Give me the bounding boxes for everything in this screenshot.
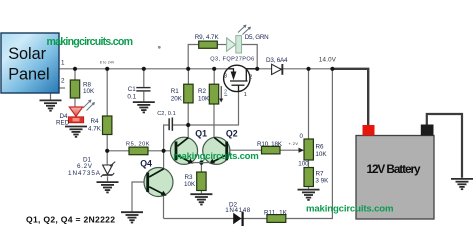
wires layer xyxy=(51,45,333,219)
battery terminal positive xyxy=(363,125,375,136)
wire R1 bottom to Q1 collector xyxy=(187,103,189,137)
svg-text:makingcircuits.com: makingcircuits.com xyxy=(173,151,258,162)
wire main rail 8-24V xyxy=(59,68,332,70)
mosfet Q3 xyxy=(224,65,256,98)
wire C1 to ground xyxy=(143,92,145,102)
node R8/rail xyxy=(73,67,77,71)
svg-text:R1: R1 xyxy=(171,88,180,95)
svg-text:makingcircuits.com: makingcircuits.com xyxy=(47,36,134,48)
wire D5 to rail xyxy=(242,45,258,69)
wire solar pin2 stub xyxy=(59,87,65,89)
svg-text:2: 2 xyxy=(249,74,252,80)
resistor R8 xyxy=(70,80,79,98)
node right vertical/rail xyxy=(330,67,334,71)
svg-text:10K: 10K xyxy=(83,88,95,95)
node R9/R1/rail xyxy=(186,67,190,71)
resistor R3 xyxy=(197,172,206,191)
resistor R9 xyxy=(199,41,218,48)
svg-text:R9, 4.7K: R9, 4.7K xyxy=(195,34,220,41)
wire R2 top xyxy=(213,69,215,84)
svg-text:R6: R6 xyxy=(316,144,325,151)
svg-text:1: 1 xyxy=(244,92,247,98)
svg-text:10K: 10K xyxy=(315,151,327,158)
transistor Q4 xyxy=(144,168,173,197)
svg-text:D3, 6A4: D3, 6A4 xyxy=(266,57,288,64)
wire rail to pot top xyxy=(308,69,310,139)
ground battery xyxy=(451,179,473,189)
svg-text:R5, 20K: R5, 20K xyxy=(126,141,150,147)
wire R4 top xyxy=(106,69,108,116)
svg-text:2: 2 xyxy=(61,78,65,85)
node R2/rail xyxy=(212,67,216,71)
wire R5 left xyxy=(107,150,129,152)
resistor R10 xyxy=(262,146,281,154)
wire R1 top xyxy=(187,69,189,84)
wire R9 to D5 xyxy=(217,44,226,46)
wire Q4 emitter down xyxy=(163,196,165,219)
node pot/rail xyxy=(306,67,310,71)
wire Q2 base to R10 xyxy=(228,149,261,151)
svg-text:20K: 20K xyxy=(171,95,183,102)
wire R9 branch left xyxy=(188,45,199,69)
wire R10 to pot wiper xyxy=(280,149,299,151)
wire R5 right to Q1 base xyxy=(148,150,175,152)
ground solar xyxy=(40,100,62,110)
capacitor C2 xyxy=(168,118,173,131)
node R4/rail xyxy=(105,67,109,71)
battery 12V xyxy=(356,125,434,220)
svg-text:3 9K: 3 9K xyxy=(315,178,329,185)
svg-text:R10, 18K: R10, 18K xyxy=(257,141,283,148)
wire solar ground stub xyxy=(50,93,52,100)
svg-text:Q1, Q2, Q4 = 2N2222: Q1, Q2, Q4 = 2N2222 xyxy=(26,214,115,224)
wire D1 to ground xyxy=(107,176,109,181)
wire battery minus to ground xyxy=(427,114,462,178)
svg-text:C1: C1 xyxy=(128,86,137,93)
LED D5 xyxy=(227,25,251,54)
wire R8 top xyxy=(74,69,76,80)
node emitters/R3 xyxy=(199,161,203,165)
wire Q4 base L xyxy=(132,182,146,211)
ground R7 xyxy=(298,190,320,200)
resistor R4 xyxy=(103,116,112,135)
svg-text:R11, 1K: R11, 1K xyxy=(264,209,288,216)
svg-text:+.2V: +.2V xyxy=(289,141,299,146)
wire R8 to D4 xyxy=(74,98,76,107)
wire thick 14V to battery plus xyxy=(332,69,368,125)
wire C2 left xyxy=(164,125,169,151)
wire emitters to R3 xyxy=(200,163,202,172)
svg-text:R3: R3 xyxy=(185,174,194,181)
svg-text:10K: 10K xyxy=(198,95,210,102)
wire bottom rail xyxy=(164,69,333,219)
ground D1 xyxy=(97,182,119,192)
svg-text:R4: R4 xyxy=(91,118,100,125)
wire R7 to ground xyxy=(308,187,310,189)
svg-text:Q3, FQP27PO6: Q3, FQP27PO6 xyxy=(210,57,254,63)
resistor R1 xyxy=(184,84,193,103)
svg-text:2: 2 xyxy=(224,90,227,96)
svg-text:10K: 10K xyxy=(184,181,196,188)
junction dots xyxy=(73,67,335,165)
capacitor C1 xyxy=(136,87,150,92)
stray mark xyxy=(158,46,161,49)
svg-text:RED: RED xyxy=(56,120,70,127)
svg-text:Solar: Solar xyxy=(8,45,46,63)
svg-text:Q2: Q2 xyxy=(226,129,238,139)
wire R2 bottom to Q2 collector xyxy=(213,104,215,137)
resistor R11 xyxy=(267,215,286,223)
svg-text:0.1: 0.1 xyxy=(127,94,136,101)
svg-text:1N4148: 1N4148 xyxy=(225,207,250,214)
resistor R2 xyxy=(209,84,218,104)
pot wiper arrow xyxy=(299,148,305,153)
solar panel box xyxy=(1,33,59,93)
ground D4 xyxy=(65,127,87,137)
wire pot to R7 xyxy=(308,160,310,168)
node C2/R1/Q1 collector xyxy=(186,123,190,127)
svg-text:8 to 24V: 8 to 24V xyxy=(100,61,115,65)
ground Q4 base xyxy=(121,212,143,222)
ground C1 xyxy=(133,102,155,112)
node R4/R5/D1 xyxy=(105,149,109,153)
svg-text:C2, 0.1: C2, 0.1 xyxy=(157,111,176,117)
node C1/rail xyxy=(142,67,146,71)
svg-text:12V Battery: 12V Battery xyxy=(367,162,421,176)
zener D1 xyxy=(101,162,115,177)
node R5/Q1 base/Q4 collector xyxy=(162,149,166,153)
pot R6 xyxy=(304,139,313,160)
node drain/D5/rail xyxy=(255,67,259,71)
svg-text:Q1: Q1 xyxy=(195,129,207,139)
ground R3 xyxy=(190,194,212,204)
LED D4 xyxy=(68,100,95,123)
svg-text:R2: R2 xyxy=(198,88,207,95)
transistor Q1 xyxy=(170,137,201,164)
diode D2 xyxy=(233,212,244,226)
svg-text:100: 100 xyxy=(298,160,309,167)
svg-text:6.2V: 6.2V xyxy=(77,163,93,170)
svg-text:Panel: Panel xyxy=(8,65,49,83)
svg-text:1: 1 xyxy=(61,60,65,67)
battery terminal negative xyxy=(421,125,434,136)
svg-text:Q4: Q4 xyxy=(140,158,152,168)
diode D3 xyxy=(272,64,284,75)
svg-text:4.7K: 4.7K xyxy=(88,126,102,133)
svg-text:3: 3 xyxy=(224,74,227,80)
svg-text:14.0V: 14.0V xyxy=(319,57,337,64)
wire C2 right to Q3 gate xyxy=(173,92,238,125)
transistor Q2 xyxy=(201,137,230,164)
svg-text:R7: R7 xyxy=(316,170,325,177)
resistor R5 xyxy=(129,147,148,155)
wire Q4 collector xyxy=(163,151,165,169)
wire R4 to D1 xyxy=(106,135,108,166)
svg-text:makingcircuits.com: makingcircuits.com xyxy=(306,204,394,215)
svg-text:D5, GRN: D5, GRN xyxy=(245,34,269,41)
svg-text:1N4735A: 1N4735A xyxy=(68,170,101,177)
wire R3 to ground xyxy=(200,191,202,194)
svg-text:0: 0 xyxy=(300,133,304,140)
wire C1 top xyxy=(143,69,145,87)
resistor R7 xyxy=(304,168,313,187)
